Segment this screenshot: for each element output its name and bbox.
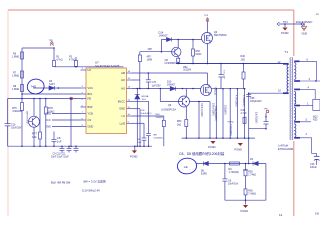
svg-text:PGND: PGND (281, 31, 289, 35)
svg-text:4.7kΩ: 4.7kΩ (69, 59, 76, 62)
svg-text:1N4007: 1N4007 (159, 34, 169, 38)
svg-text:10%: 10% (142, 99, 146, 101)
svg-text:1.8MΩ: 1.8MΩ (12, 88, 19, 91)
svg-text:3.3nF(2kV): 3.3nF(2kV) (141, 113, 152, 115)
svg-text:1uF/25V: 1uF/25V (152, 85, 161, 88)
svg-text:ETD16L294B: ETD16L294B (278, 148, 293, 151)
svg-text:TP1: TP1 (283, 20, 288, 24)
svg-text:FCEjo: FCEjo (228, 122, 235, 124)
svg-text:HO: HO (121, 78, 125, 82)
svg-text:BVCC: BVCC (118, 99, 125, 103)
svg-text:VCC: VCC (88, 86, 94, 90)
svg-text:1N4007: 1N4007 (167, 84, 176, 87)
svg-text:LO: LO (122, 114, 125, 118)
svg-text:10nF 10uF 10uF: 10nF 10uF 10uF (51, 155, 69, 158)
svg-text:102(1kV): 102(1kV) (224, 105, 227, 115)
svg-text:HB: HB (121, 71, 125, 75)
svg-text:S1PJ: S1PJ (49, 83, 56, 86)
svg-text:VCC: VCC (46, 119, 51, 122)
svg-text:LL/B: LL/B (120, 121, 126, 125)
svg-text:1uF: 1uF (57, 139, 62, 143)
svg-text:BLK 4M FB 5W: BLK 4M FB 5W (51, 180, 71, 184)
svg-text:1kΩ: 1kΩ (177, 123, 182, 126)
svg-text:BLK: BLK (88, 92, 93, 96)
svg-text:4.7uF: 4.7uF (241, 112, 248, 115)
svg-text:10nF/1kV: 10nF/1kV (228, 183, 239, 186)
svg-text:4.7kΩ(W): 4.7kΩ(W) (153, 138, 163, 140)
svg-text:100uF: 100uF (310, 166, 317, 169)
svg-text:GND: GND (46, 112, 52, 115)
svg-text:4.7nF(1kV): 4.7nF(1kV) (235, 95, 238, 107)
svg-text:SFP7840S06B: SFP7840S06B (95, 64, 120, 68)
svg-text:GND: GND (88, 125, 94, 129)
svg-text:4.7kΩ: 4.7kΩ (56, 59, 63, 62)
svg-text:LV1N60PCSA: LV1N60PCSA (165, 62, 180, 65)
svg-text:2.2nF(2kV): 2.2nF(2kV) (229, 124, 232, 136)
svg-text:PGND: PGND (130, 154, 138, 158)
svg-text:PGND: PGND (235, 148, 243, 152)
svg-text:HS: HS (121, 87, 125, 91)
svg-text:B/W: B/W (88, 105, 93, 109)
svg-text:SSF7N65A: SSF7N65A (214, 33, 227, 37)
svg-text:1P8: 1P8 (147, 48, 152, 51)
svg-text:GND: GND (119, 107, 125, 111)
svg-text:0.27uF/400V: 0.27uF/400V (200, 103, 203, 117)
svg-text:HV: HV (88, 68, 92, 72)
svg-text:1uF: 1uF (184, 165, 189, 169)
svg-text:510Ω: 510Ω (196, 53, 202, 56)
svg-text:LV1N60PCSA: LV1N60PCSA (161, 108, 176, 111)
svg-text:GND: GND (46, 125, 52, 128)
svg-text:10k: 10k (32, 135, 37, 139)
svg-text:YCB: YCB (88, 112, 94, 116)
svg-text:BZ03A: BZ03A (142, 95, 149, 98)
svg-text:1.74kΩ: 1.74kΩ (248, 174, 256, 177)
svg-text:R23: R23 (313, 118, 318, 121)
svg-text:FB: FB (88, 97, 92, 101)
svg-text:1.8MΩ: 1.8MΩ (12, 74, 19, 77)
svg-text:10Ω: 10Ω (241, 59, 246, 62)
svg-text:4.7kΩ(1W): 4.7kΩ(1W) (242, 95, 245, 107)
svg-text:GND: GND (302, 31, 308, 35)
svg-text:LW8T2Y25Ω: LW8T2Y25Ω (26, 111, 28, 124)
svg-text:1W: 1W (315, 212, 319, 216)
svg-text:T1: T1 (285, 50, 289, 54)
svg-text:PGND: PGND (241, 209, 249, 213)
svg-text:S3R0: S3R0 (201, 172, 208, 175)
svg-text:T=85: T=85 (31, 85, 37, 88)
svg-text:100uF(25V): 100uF(25V) (211, 103, 214, 116)
svg-text:1.74Ω(W): 1.74Ω(W) (229, 171, 239, 174)
svg-text:C7 1.2nF: C7 1.2nF (223, 70, 225, 80)
svg-text:1kΩ(W): 1kΩ(W) (156, 117, 164, 119)
svg-text:C8、D8 使用跟R9的1206封装: C8、D8 使用跟R9的1206封装 (179, 151, 225, 156)
svg-text:5.2V 8W≤2.4V: 5.2V 8W≤2.4V (82, 188, 100, 192)
svg-text:1.8MΩ: 1.8MΩ (12, 55, 19, 58)
svg-text:14: 14 (279, 213, 283, 216)
svg-text:7.43kΩ: 7.43kΩ (248, 193, 256, 196)
svg-text:47kΩ/2W: 47kΩ/2W (12, 110, 23, 113)
svg-text:CS: CS (88, 118, 92, 122)
svg-text:10uF/25V: 10uF/25V (11, 127, 22, 130)
svg-text:0.33uF(630V): 0.33uF(630V) (214, 106, 217, 121)
svg-text:1/8W: 1/8W (147, 59, 153, 62)
svg-text:PGND: PGND (208, 145, 216, 149)
svg-text:1uF: 1uF (138, 142, 142, 144)
svg-text:10uF(16V): 10uF(16V) (255, 112, 258, 123)
svg-text:8W = 3.2V 高压快: 8W = 3.2V 高压快 (84, 180, 107, 184)
svg-text:100pF/2kV: 100pF/2kV (250, 100, 262, 103)
svg-text:100-240VAC: 100-240VAC (296, 20, 314, 24)
svg-text:Y16E1E: Y16E1E (214, 87, 217, 96)
svg-text:10Ω2%: 10Ω2% (183, 69, 192, 72)
